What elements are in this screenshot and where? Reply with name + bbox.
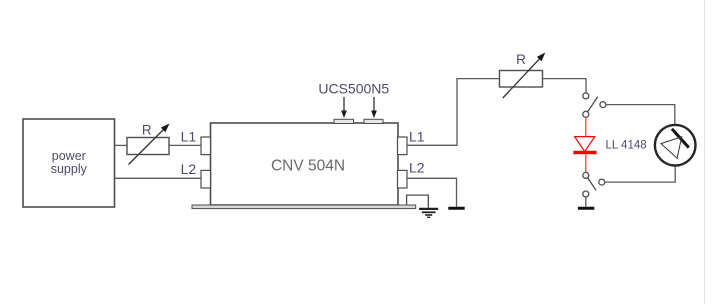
meter M1 (655, 125, 696, 166)
ground (earth) (419, 209, 438, 217)
pin L2 right terminal (398, 170, 408, 188)
svg-text:LL 4148: LL 4148 (606, 139, 647, 151)
wire: R1 to CNV L1 terminal (169, 144, 202, 146)
resistor R2 (variable) (500, 53, 546, 99)
svg-text:power: power (52, 149, 86, 163)
LED D1 wire top (red) (585, 117, 587, 136)
wire: CNV right L1 to resistor R2 (407, 79, 500, 146)
svg-text:R: R (142, 123, 152, 138)
power supply box (23, 119, 115, 207)
top terminal pin A (334, 119, 354, 123)
svg-text:L2: L2 (409, 159, 425, 175)
svg-text:R: R (516, 52, 526, 67)
svg-text:CNV 504N: CNV 504N (271, 158, 345, 175)
wire: CNV right L2 down to bar terminal (407, 178, 457, 206)
switch S2 (583, 172, 605, 197)
wire: S1 to meter top (606, 105, 675, 125)
pin L1 right terminal (398, 137, 408, 155)
wire: baseplate to earth (407, 195, 429, 208)
page edge faint line (704, 0, 706, 304)
LED D1 wire bottom (red) (585, 154, 587, 172)
baseplate of U1 (192, 205, 416, 209)
pin L2 left terminal (201, 170, 211, 188)
wire L2: power supply to CNV L2 terminal (115, 177, 202, 179)
resistor R1 (variable) (127, 124, 170, 165)
wire: S2 down to ground bar (585, 197, 587, 207)
svg-text:L1: L1 (409, 128, 425, 144)
wire: meter bottom to S2 (605, 166, 675, 183)
converter U1 CNV 504N (211, 123, 399, 205)
pin L1 left terminal (201, 137, 211, 155)
top terminal pin B (364, 119, 383, 123)
LED D1 (573, 137, 596, 153)
svg-text:L2: L2 (181, 161, 197, 177)
arrow to pin A (341, 97, 347, 118)
svg-text:supply: supply (51, 162, 88, 176)
arrow to pin B (371, 97, 377, 118)
svg-text:UCS500N5: UCS500N5 (318, 81, 389, 97)
wire L1: power supply to resistor R1 (115, 144, 128, 146)
terminal bar (L2 return) (448, 207, 464, 210)
svg-text:L1: L1 (181, 129, 197, 145)
wire: R2 to switch S1 (543, 79, 587, 93)
switch S1 (583, 93, 606, 117)
ground bar under S2 (578, 207, 594, 210)
